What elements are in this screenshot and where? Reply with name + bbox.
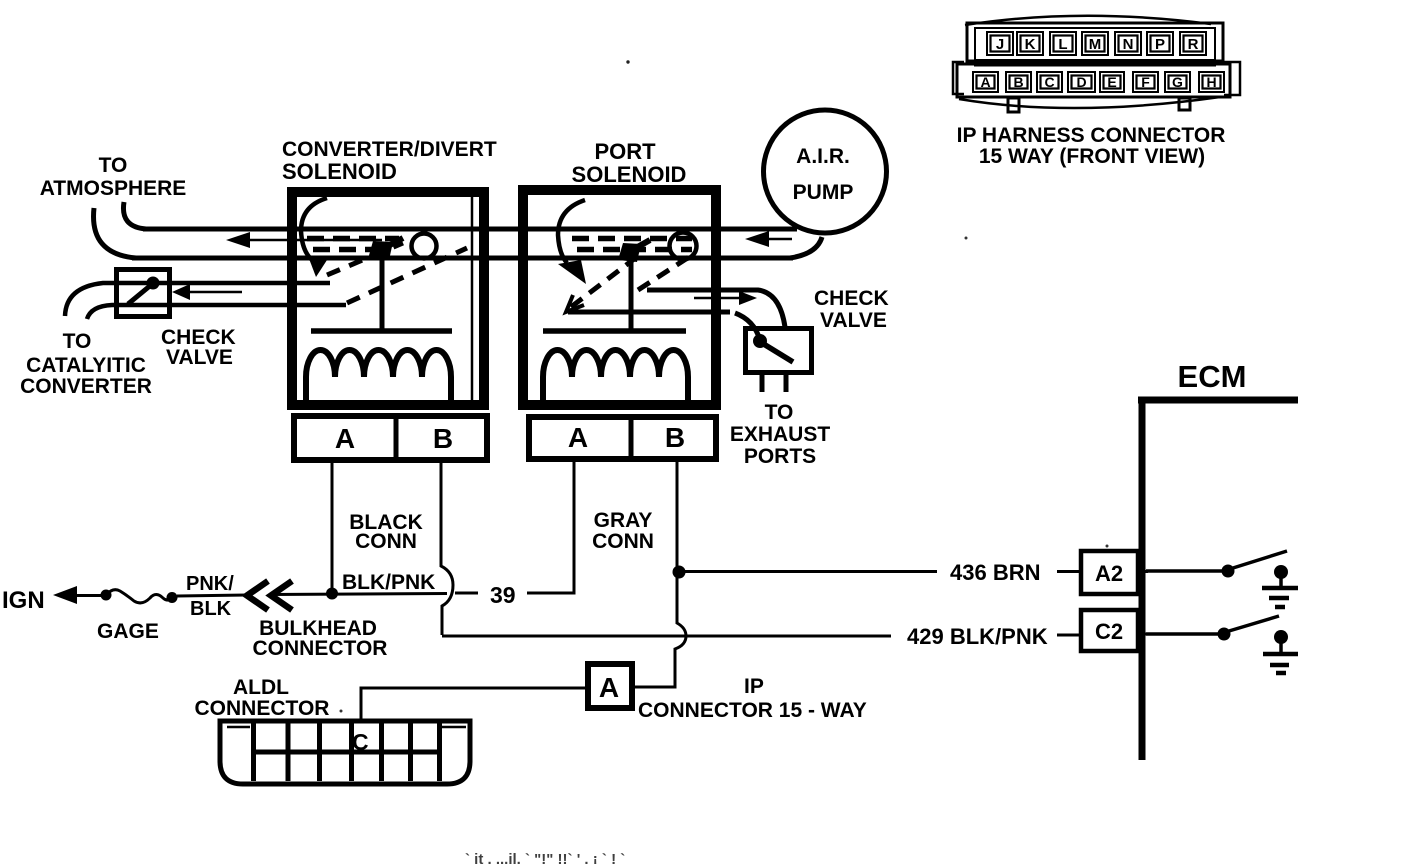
fusible link squiggle wire — [106, 590, 172, 603]
right check valve pipe lower wall elbow — [735, 313, 760, 340]
fusible link dot 2 — [167, 592, 178, 603]
air pipe upper wall (atmosphere outlet to pump) — [123, 202, 797, 229]
port solenoid box — [523, 190, 716, 405]
converter solenoid flap dashed line 2 — [347, 248, 467, 303]
svg-text:39: 39 — [490, 582, 516, 608]
label ALDL CONNECTOR — [195, 676, 330, 720]
ECM terminal C2 — [1081, 610, 1138, 651]
left check valve pipe lower wall — [87, 305, 346, 319]
svg-text:B: B — [1013, 74, 1023, 90]
wire 429 BLK/PNK (converter solenoid B to ECM C2) — [442, 634, 1148, 636]
svg-text:CONN: CONN — [355, 530, 417, 553]
converter solenoid curved arrow — [301, 198, 327, 277]
label BLACK CONN — [349, 511, 423, 553]
label PORT SOLENOID — [572, 139, 687, 187]
svg-text:A: A — [335, 423, 355, 454]
IP harness pin H — [1199, 72, 1224, 92]
converter solenoid flap dashed line 1 — [327, 243, 403, 275]
port solenoid pipe dashes row 2 — [577, 247, 692, 253]
IP harness pin D — [1068, 72, 1095, 92]
label GRAY CONN — [592, 509, 654, 553]
svg-text:GAGE: GAGE — [97, 620, 159, 643]
ALDL connector body — [220, 721, 470, 784]
svg-text:` it . ...il. ` "!" !!` ' . ¡: ` it . ...il. ` "!" !!` ' . ¡ ` ! ` — [465, 851, 625, 864]
converter solenoid pipe dashes row 2 — [313, 247, 390, 253]
svg-text:H: H — [1206, 74, 1216, 90]
switch contact dot A2 — [1222, 565, 1235, 578]
svg-text:IP HARNESS CONNECTOR: IP HARNESS CONNECTOR — [957, 124, 1226, 147]
label BULKHEAD CONNECTOR — [253, 617, 388, 660]
ECM bracket vertical line — [1139, 397, 1146, 760]
IP harness pin G — [1165, 72, 1190, 92]
wire converter solenoid A down — [331, 463, 334, 593]
wire converter solenoid B down with hop over circuit 39 — [441, 463, 453, 635]
converter solenoid inner wall line — [471, 190, 474, 405]
svg-text:TO: TO — [63, 330, 92, 353]
switch contact dot C2 — [1218, 628, 1231, 641]
port solenoid armature bar — [543, 328, 686, 334]
svg-text:B: B — [665, 422, 685, 453]
wire ALDL C to IP connector A — [361, 688, 585, 719]
ground C2 — [1263, 630, 1298, 673]
IP harness pin E — [1100, 72, 1124, 92]
label CONVERTER/DIVERT SOLENOID — [282, 138, 497, 184]
right check valve pipe upper wall — [647, 290, 785, 327]
svg-text:A.I.R.: A.I.R. — [796, 145, 850, 168]
scan speck 1 — [626, 60, 629, 63]
svg-text:EXHAUST: EXHAUST — [730, 423, 831, 446]
svg-text:SOLENOID: SOLENOID — [282, 159, 397, 184]
wire dot2 to bulkhead connector — [177, 595, 247, 596]
scan speck 2 — [965, 237, 968, 240]
flow arrow left (in pipe near pump) — [745, 231, 792, 247]
svg-text:C2: C2 — [1095, 619, 1123, 644]
scan speck 3 — [340, 710, 343, 713]
svg-text:G: G — [1172, 74, 1183, 90]
svg-text:E: E — [1107, 74, 1116, 90]
switch blade C2 — [1229, 616, 1279, 631]
svg-text:K: K — [1025, 36, 1036, 53]
junction dot converter A — [326, 588, 338, 600]
svg-text:VALVE: VALVE — [166, 346, 233, 369]
junction dot port B / 436 — [673, 566, 686, 579]
svg-text:CONVERTER: CONVERTER — [20, 375, 152, 398]
wire junction down with hop over 429 to IP connector A — [634, 572, 686, 687]
svg-text:GRAY: GRAY — [594, 509, 653, 532]
right check valve flow arrow — [694, 291, 757, 305]
svg-text:CONN: CONN — [592, 530, 654, 553]
svg-text:R: R — [1188, 36, 1199, 53]
svg-text:TO: TO — [765, 401, 794, 424]
wire ECM A2 to switch — [1146, 569, 1225, 573]
port solenoid terminal strip — [529, 414, 716, 459]
IGN arrow — [53, 586, 108, 604]
IP harness pin A — [973, 72, 998, 92]
ground A2 — [1262, 565, 1298, 607]
bulkhead connector chevrons — [247, 581, 292, 610]
wire stub right of hop — [455, 592, 478, 595]
svg-text:SOLENOID: SOLENOID — [572, 162, 687, 187]
port solenoid flap dashed arrowhead — [566, 295, 584, 312]
switch blade A2 — [1233, 551, 1287, 568]
label TO EXHAUST PORTS — [730, 401, 831, 468]
port solenoid seat line — [568, 310, 730, 315]
converter solenoid valve pivot — [368, 238, 403, 260]
label IP CONNECTOR 15 - WAY — [638, 675, 867, 722]
svg-text:IP: IP — [744, 675, 764, 698]
svg-text:C: C — [1044, 74, 1054, 90]
converter solenoid port circle — [412, 234, 437, 259]
converter solenoid pipe dashes row 1 — [307, 236, 399, 242]
IP harness pin J — [987, 32, 1013, 55]
port solenoid pipe dashes row 1 — [572, 236, 692, 242]
wire 436 BRN (port solenoid B to ECM A2) — [679, 570, 1148, 573]
converter solenoid terminal strip — [294, 413, 487, 460]
converter solenoid plunger stem — [380, 256, 385, 331]
svg-text:A: A — [568, 422, 588, 453]
A.I.R. pump — [764, 110, 887, 233]
svg-text:P: P — [1155, 36, 1165, 53]
svg-text:CONNECTOR: CONNECTOR — [253, 637, 388, 660]
ALDL connector top inner ticks — [227, 726, 250, 729]
port solenoid flap dashed line 2 — [638, 257, 689, 290]
scan speck 4 — [1106, 545, 1109, 548]
svg-text:429 BLK/PNK: 429 BLK/PNK — [907, 624, 1048, 649]
port solenoid plunger stem — [629, 258, 634, 331]
svg-text:D: D — [1076, 74, 1086, 90]
IP harness pin F — [1133, 72, 1158, 92]
label TO ATMOSPHERE — [40, 154, 187, 200]
svg-text:CONNECTOR: CONNECTOR — [195, 697, 330, 720]
ALDL connector grid — [253, 723, 442, 781]
right check valve — [746, 329, 812, 393]
converter/divert solenoid box — [292, 192, 484, 405]
IP harness connector 15-way (front view) — [953, 16, 1240, 112]
label CHECK VALVE (right) — [814, 287, 889, 332]
left check valve — [117, 270, 170, 317]
label CHECK VALVE (left) — [161, 326, 236, 369]
svg-text:ATMOSPHERE: ATMOSPHERE — [40, 177, 187, 200]
svg-text:BLK/PNK: BLK/PNK — [342, 571, 435, 594]
label PNK/ BLK — [186, 573, 234, 620]
air pipe lower wall — [94, 208, 822, 258]
svg-text:CHECK: CHECK — [814, 287, 889, 310]
IP harness pin L — [1050, 32, 1076, 55]
label TO CATALYITIC CONVERTER — [20, 330, 152, 398]
svg-text:15 WAY (FRONT VIEW): 15 WAY (FRONT VIEW) — [979, 145, 1205, 168]
svg-text:BLK: BLK — [190, 598, 232, 620]
fusible link dot 1 — [101, 590, 112, 601]
svg-text:CATALYITIC: CATALYITIC — [26, 354, 146, 377]
flow arrow left (in pipe near atmosphere) — [226, 232, 382, 248]
svg-text:L: L — [1058, 36, 1067, 53]
svg-text:CONNECTOR 15 - WAY: CONNECTOR 15 - WAY — [638, 699, 867, 722]
port solenoid curved arrow — [558, 200, 586, 284]
svg-text:PUMP: PUMP — [793, 181, 854, 204]
wire port solenoid B down — [676, 462, 679, 570]
IP harness pin K — [1017, 32, 1043, 55]
svg-text:PNK/: PNK/ — [186, 573, 234, 595]
wire circuit 39 to port solenoid A — [527, 462, 574, 593]
svg-text:PORTS: PORTS — [744, 445, 816, 468]
svg-text:436 BRN: 436 BRN — [950, 560, 1040, 585]
port solenoid port circle — [670, 233, 697, 260]
IP harness pin P — [1147, 32, 1173, 55]
converter solenoid armature bar — [311, 328, 452, 334]
label IP HARNESS CONNECTOR 15 WAY (FRONT VIEW) — [957, 124, 1226, 168]
svg-text:IGN: IGN — [2, 587, 45, 614]
svg-text:ALDL: ALDL — [233, 676, 289, 699]
left check valve pipe upper wall — [65, 283, 330, 316]
IP connector terminal A box — [588, 664, 632, 708]
port solenoid flap dashed line 1 — [571, 259, 634, 307]
svg-text:ECM: ECM — [1178, 359, 1247, 394]
svg-text:PORT: PORT — [594, 139, 656, 164]
port solenoid valve pivot — [618, 240, 650, 262]
IP harness pin C — [1037, 72, 1062, 92]
svg-text:TO: TO — [99, 154, 128, 177]
converter solenoid coil — [306, 350, 451, 407]
svg-text:A2: A2 — [1095, 561, 1123, 586]
IP harness pin M — [1082, 32, 1108, 55]
IP harness pin B — [1006, 72, 1031, 92]
svg-text:F: F — [1141, 74, 1150, 90]
IP harness pin R — [1180, 32, 1206, 55]
ECM bracket top line — [1138, 397, 1298, 404]
svg-text:VALVE: VALVE — [820, 309, 887, 332]
port solenoid coil — [543, 350, 688, 407]
svg-text:N: N — [1123, 36, 1134, 53]
svg-text:B: B — [433, 423, 453, 454]
svg-text:A: A — [980, 74, 990, 90]
svg-text:C: C — [352, 729, 369, 755]
main ignition feed wire to circuit 39 break — [270, 594, 447, 595]
svg-text:A: A — [599, 672, 619, 703]
ECM terminal A2 — [1081, 551, 1138, 594]
wire ECM C2 to switch — [1146, 632, 1221, 636]
svg-text:M: M — [1089, 36, 1102, 53]
IP harness pin N — [1115, 32, 1141, 55]
svg-text:J: J — [996, 36, 1004, 53]
left check valve flow arrow — [172, 284, 242, 300]
svg-text:CONVERTER/DIVERT: CONVERTER/DIVERT — [282, 138, 497, 161]
